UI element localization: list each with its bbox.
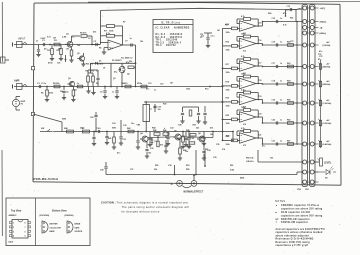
svg-text:R53: R53	[186, 165, 189, 167]
svg-text:SW: SW	[41, 128, 44, 130]
svg-text:J1: J1	[36, 41, 38, 43]
svg-text:0.01: 0.01	[47, 37, 51, 39]
svg-text:R13: R13	[225, 25, 228, 27]
svg-text:R7: R7	[123, 22, 125, 24]
svg-text:(1.6KHz): (1.6KHz)	[323, 103, 332, 105]
svg-text:1: 1	[13, 223, 14, 225]
svg-text:(40Hz): (40Hz)	[320, 32, 327, 35]
svg-text:C18: C18	[258, 80, 261, 82]
svg-text:C19: C19	[272, 99, 275, 101]
svg-text:C32: C32	[150, 148, 153, 150]
svg-text:R45: R45	[153, 129, 156, 132]
svg-text:The parts rating and/or schema: The parts rating and/or schematic diagra…	[122, 205, 190, 209]
svg-text:C38: C38	[168, 165, 171, 167]
svg-text:DRAIN: DRAIN	[75, 222, 81, 225]
svg-text:R66: R66	[287, 119, 290, 121]
svg-text:C37: C37	[130, 169, 133, 171]
svg-text:R6: R6	[41, 93, 43, 95]
svg-text:2.2M: 2.2M	[62, 37, 67, 39]
svg-text:R51: R51	[205, 149, 208, 151]
svg-text:R19: R19	[226, 97, 229, 99]
svg-text:R16: R16	[226, 41, 229, 43]
svg-text:C18: C18	[272, 80, 275, 82]
svg-text:AMP: AMP	[14, 80, 20, 83]
svg-text:Resistors 1/4W ±5% rating: Resistors 1/4W ±5% rating	[276, 241, 311, 244]
svg-text:4558: 4558	[240, 177, 244, 180]
svg-text:R10: R10	[124, 83, 127, 85]
svg-text:4558DC: 4558DC	[9, 214, 17, 217]
svg-text:(400Hz): (400Hz)	[323, 66, 331, 69]
svg-text:R42: R42	[127, 127, 130, 130]
svg-text:PCB-BE-5101A: PCB-BE-5101A	[34, 177, 60, 181]
svg-text:SW1: SW1	[112, 128, 116, 130]
svg-text:IC2: IC2	[243, 51, 246, 53]
svg-text:R48: R48	[177, 137, 180, 140]
svg-text:(14V): (14V)	[9, 241, 14, 244]
svg-text:C31: C31	[123, 139, 126, 141]
svg-text:4: 4	[13, 235, 14, 238]
svg-text:(3.2KHz): (3.2KHz)	[323, 123, 332, 125]
svg-text:TANTALUM capacitor: TANTALUM capacitor	[281, 221, 308, 224]
svg-text:(6.4KHz): (6.4KHz)	[323, 143, 332, 146]
svg-text:R33: R33	[193, 125, 196, 127]
svg-text:R63: R63	[287, 63, 290, 65]
svg-text:C10: C10	[160, 84, 163, 86]
svg-text:C28: C28	[100, 170, 103, 172]
svg-text:SOURCE: SOURCE	[75, 231, 83, 233]
svg-text:1M: 1M	[53, 38, 56, 40]
svg-text:R41: R41	[108, 137, 111, 140]
svg-text:R6: R6	[99, 48, 101, 50]
svg-text:6: 6	[25, 231, 26, 233]
svg-text:be changed without notice.: be changed without notice.	[122, 209, 161, 213]
svg-text:R12: R12	[91, 71, 94, 73]
svg-text:R17: R17	[226, 64, 229, 66]
svg-text:C17: C17	[272, 63, 275, 65]
svg-text:C75: C75	[319, 56, 322, 58]
svg-text:C10: C10	[148, 83, 151, 85]
svg-text:D1, D-4 → 1SS133×4: D1, D-4 → 1SS133×4	[156, 33, 183, 36]
svg-text:NOTES: NOTES	[275, 199, 285, 203]
svg-text:C35: C35	[216, 144, 219, 146]
svg-text:Q2: Q2	[113, 78, 116, 80]
svg-text:COLLECTOR: COLLECTOR	[50, 227, 62, 229]
svg-text:R20: R20	[226, 115, 229, 117]
svg-text:LEVEL: LEVEL	[324, 163, 332, 165]
svg-text:C2: C2	[88, 38, 90, 40]
svg-text:(800Hz): (800Hz)	[323, 84, 331, 86]
svg-text:R18: R18	[226, 81, 229, 83]
svg-text:(2SC2240): (2SC2240)	[40, 214, 50, 217]
svg-text:R51: R51	[230, 165, 233, 167]
svg-text:C21: C21	[258, 135, 261, 137]
svg-text:C17: C17	[258, 63, 261, 65]
svg-text:EMITTER: EMITTER	[50, 223, 59, 225]
svg-text:C9: C9	[100, 92, 102, 94]
svg-text:+B: +B	[320, 28, 323, 30]
svg-text:capacitors are above 25V ratin: capacitors are above 25V rating	[281, 208, 323, 211]
svg-text:C33: C33	[170, 128, 173, 130]
svg-text:C20: C20	[258, 114, 261, 116]
svg-text:FILM capacitor AA 630: FILM capacitor AA 630	[281, 211, 311, 214]
svg-text:CN2: CN2	[297, 189, 301, 191]
svg-text:Q3: Q3	[74, 90, 77, 92]
svg-text:0.047: 0.047	[41, 37, 47, 40]
svg-text:C30: C30	[123, 125, 126, 127]
svg-text:1M: 1M	[66, 49, 69, 51]
svg-text:R60: R60	[268, 13, 271, 15]
svg-text:3: 3	[13, 231, 14, 233]
svg-text:C39: C39	[213, 157, 216, 159]
svg-text:IC5: IC5	[243, 145, 246, 147]
svg-text:C16: C16	[272, 41, 275, 43]
svg-text:J2: J2	[171, 184, 173, 186]
svg-text:BASE: BASE	[50, 230, 56, 233]
svg-text:C28: C28	[178, 125, 181, 127]
svg-text:D2, D-3 → 1S2473×2: D2, D-3 → 1S2473×2	[156, 36, 183, 39]
svg-text:R55: R55	[186, 169, 189, 171]
svg-text:C3 1u: C3 1u	[41, 83, 47, 85]
svg-text:C16: C16	[258, 40, 261, 42]
svg-text:1M: 1M	[170, 83, 173, 85]
svg-text:Resistance Ω Zℓ K=KΩ M=MΩ: Resistance Ω Zℓ K=KΩ M=MΩ	[276, 238, 314, 241]
svg-text:C8 47u: C8 47u	[97, 63, 104, 66]
svg-text:IC1 4558 ×2: IC1 4558 ×2	[121, 57, 133, 60]
svg-text:CERAMIC capacitor ±0.25ω·ω: CERAMIC capacitor ±0.25ω·ω	[281, 204, 319, 207]
svg-text:(2SK30A): (2SK30A)	[65, 214, 74, 217]
svg-text:2: 2	[13, 227, 14, 229]
svg-text:Q2: Q2	[77, 53, 80, 55]
svg-text:R13: R13	[205, 89, 208, 91]
svg-text:(100Hz): (100Hz)	[323, 45, 331, 47]
svg-text:CAUTION :: CAUTION :	[101, 200, 116, 204]
svg-text:C15: C15	[258, 23, 261, 25]
svg-text:C20: C20	[272, 119, 275, 121]
svg-text:SW2: SW2	[62, 119, 66, 121]
svg-text:C36: C36	[191, 138, 194, 140]
svg-text:capacitors unless otherwise ma: capacitors unless otherwise marked	[276, 231, 323, 234]
svg-text:This schematic diagram is a no: This schematic diagram is a normal stand…	[117, 200, 190, 204]
svg-text:R10: R10	[137, 83, 140, 85]
svg-text:R5 47k: R5 47k	[80, 32, 87, 35]
svg-text:GATE: GATE	[75, 226, 81, 229]
svg-text:D2 1S2473: D2 1S2473	[112, 59, 121, 62]
svg-text:above otherwise adjusted: above otherwise adjusted	[276, 234, 310, 237]
svg-text:INPUT: INPUT	[18, 38, 26, 41]
svg-text:CN1: CN1	[305, 189, 309, 191]
svg-text:Top View: Top View	[11, 210, 21, 213]
svg-text:IC: CLEAR → NUMBERED: IC: CLEAR → NUMBERED	[156, 27, 190, 30]
svg-text:R49: R49	[226, 135, 229, 138]
svg-text:7: 7	[25, 227, 26, 229]
svg-text:D1: D1	[99, 61, 101, 63]
svg-text:C72: C72	[290, 41, 293, 43]
svg-text:R67: R67	[287, 140, 290, 142]
svg-text:200(C): 200(C)	[320, 22, 327, 24]
svg-text:▲: ▲	[276, 204, 278, 207]
svg-text:capacitors are above 50V ratin: capacitors are above 50V rating	[281, 214, 323, 217]
svg-text:R65: R65	[287, 99, 290, 101]
svg-text:And all capacitors are ELECTRO: And all capacitors are ELECTROLYTIC	[276, 228, 326, 231]
svg-text:R45: R45	[186, 129, 189, 132]
svg-text:8: 8	[25, 223, 26, 225]
svg-text:TR-4 → 2SC732: TR-4 → 2SC732	[156, 44, 177, 47]
svg-text:+9(C): +9(C)	[320, 8, 326, 10]
svg-text:C29: C29	[90, 117, 93, 119]
svg-text:NON POLAR capacitor: NON POLAR capacitor	[281, 218, 310, 221]
svg-text:R30: R30	[163, 104, 166, 106]
svg-text:5: 5	[25, 236, 26, 238]
svg-text:TR-1 → 2SC2240: TR-1 → 2SC2240	[156, 39, 178, 42]
svg-text:R52: R52	[155, 165, 158, 167]
svg-text:R61: R61	[290, 18, 293, 20]
svg-text:C40 47u: C40 47u	[246, 160, 254, 163]
svg-text:C70: C70	[287, 6, 290, 8]
svg-text:R8 22k: R8 22k	[53, 83, 60, 85]
svg-text:Bottom View: Bottom View	[52, 210, 67, 213]
svg-text:C6: C6	[66, 92, 68, 94]
svg-text:R50 10k: R50 10k	[246, 158, 254, 160]
svg-text:C15: C15	[272, 18, 275, 20]
svg-text:C21: C21	[272, 140, 275, 142]
svg-text:R11 47k: R11 47k	[86, 63, 94, 66]
svg-text:1M: 1M	[217, 30, 220, 32]
svg-text:NORMAL/EFFECT: NORMAL/EFFECT	[184, 190, 204, 193]
svg-text:IC, TR, D List: IC, TR, D List	[161, 21, 180, 24]
svg-text:C25: C25	[158, 107, 161, 109]
svg-text:TR-2,3 → 2SK30A-Y: TR-2,3 → 2SK30A-Y	[156, 41, 182, 44]
svg-text:C19: C19	[258, 96, 261, 98]
svg-text:R9: R9	[96, 83, 98, 85]
